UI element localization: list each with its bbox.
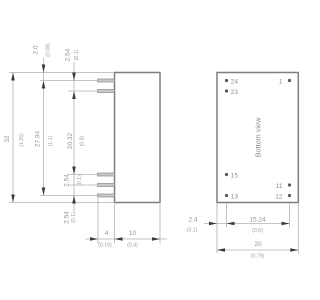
pin dot 13 [225, 193, 239, 200]
extension line pin row10 [68, 174, 98, 176]
svg-text:Bottom view: Bottom view [254, 117, 263, 157]
svg-text:20.32: 20.32 [67, 132, 74, 149]
svg-text:15: 15 [231, 172, 239, 179]
label 2.54 mid [63, 174, 83, 187]
svg-text:(0.79): (0.79) [251, 254, 265, 260]
ext vline box right bottom [159, 204, 161, 244]
svg-text:(0.1): (0.1) [77, 175, 83, 186]
svg-text:(0.08): (0.08) [46, 43, 52, 57]
extension line pin row12 [40, 195, 98, 197]
label 15.24 [249, 217, 266, 235]
dim line 2.0 / 27.94 [42, 58, 46, 196]
extension line pin row1 [40, 80, 98, 82]
ext vline pin end bottom [97, 198, 99, 244]
ext vline bv right pin col [289, 204, 291, 228]
svg-text:4: 4 [105, 230, 109, 237]
svg-text:2.54: 2.54 [65, 48, 72, 61]
bottom view body [217, 73, 298, 203]
pin dot 11 [276, 183, 291, 190]
dim line 32 [11, 73, 15, 203]
svg-text:32: 32 [4, 135, 11, 143]
svg-text:20: 20 [254, 241, 262, 248]
label 4 [98, 230, 112, 249]
svg-text:(0.4): (0.4) [127, 243, 138, 249]
label 2.54 top [65, 48, 81, 61]
label 10 [127, 230, 138, 249]
dim line 4 / 10 [85, 237, 167, 241]
pin dot 12 [275, 193, 291, 200]
svg-text:(0.1): (0.1) [187, 228, 198, 234]
svg-text:2.0: 2.0 [33, 45, 40, 54]
label 2.4 [187, 217, 198, 234]
svg-text:13: 13 [231, 193, 239, 200]
extension line pin row2 [68, 90, 98, 92]
svg-text:23: 23 [231, 89, 239, 96]
svg-text:(0.1): (0.1) [74, 49, 80, 60]
pin dot 24 [225, 78, 239, 85]
svg-text:12: 12 [275, 193, 283, 200]
label 27.94 [34, 130, 54, 147]
dim line 2.4 / 15.24 [204, 222, 290, 226]
extension line box bottom [9, 202, 115, 204]
pin row2 side [98, 90, 115, 93]
label 32 [4, 133, 25, 147]
side view body [115, 73, 161, 203]
pin row12 side [98, 194, 115, 197]
extension line box top [9, 72, 115, 74]
svg-text:(0.6): (0.6) [252, 228, 263, 234]
ext vline bv left [216, 204, 218, 254]
svg-text:2.4: 2.4 [188, 217, 197, 224]
ext vline box left bottom [114, 204, 116, 244]
pin row1 side [98, 79, 115, 82]
ext vline bv left pin col [226, 204, 228, 228]
svg-text:(0.16): (0.16) [98, 243, 112, 249]
label 20.32 [67, 132, 86, 149]
svg-text:(0.1): (0.1) [71, 212, 77, 223]
pin dot 1 [279, 78, 291, 85]
pin dot 23 [225, 89, 239, 96]
dim line 2.54 top / 20.32 / 2.54 mid / 2.54 bottom [72, 62, 76, 212]
svg-text:27.94: 27.94 [34, 130, 41, 147]
pin row10 side [98, 173, 115, 176]
svg-text:(1.26): (1.26) [19, 133, 25, 147]
pin dot 15 [225, 172, 239, 179]
svg-text:2.54: 2.54 [63, 174, 70, 187]
ext vline bv right [297, 204, 299, 254]
svg-text:11: 11 [276, 183, 283, 190]
label 20 [251, 241, 265, 260]
svg-text:2.54: 2.54 [63, 211, 70, 224]
svg-text:15.24: 15.24 [249, 217, 266, 224]
label 2.0 [33, 43, 52, 57]
svg-text:(1.1): (1.1) [48, 135, 54, 146]
svg-text:10: 10 [129, 230, 137, 237]
pin row11 side [98, 184, 115, 187]
dim line 20 [217, 248, 298, 252]
label Bottom view [254, 117, 263, 157]
extension line pin row11 [68, 184, 98, 186]
svg-text:(0.8): (0.8) [80, 135, 86, 146]
label 2.54 bottom [63, 211, 77, 224]
svg-text:24: 24 [231, 78, 239, 85]
svg-text:1: 1 [279, 78, 283, 85]
